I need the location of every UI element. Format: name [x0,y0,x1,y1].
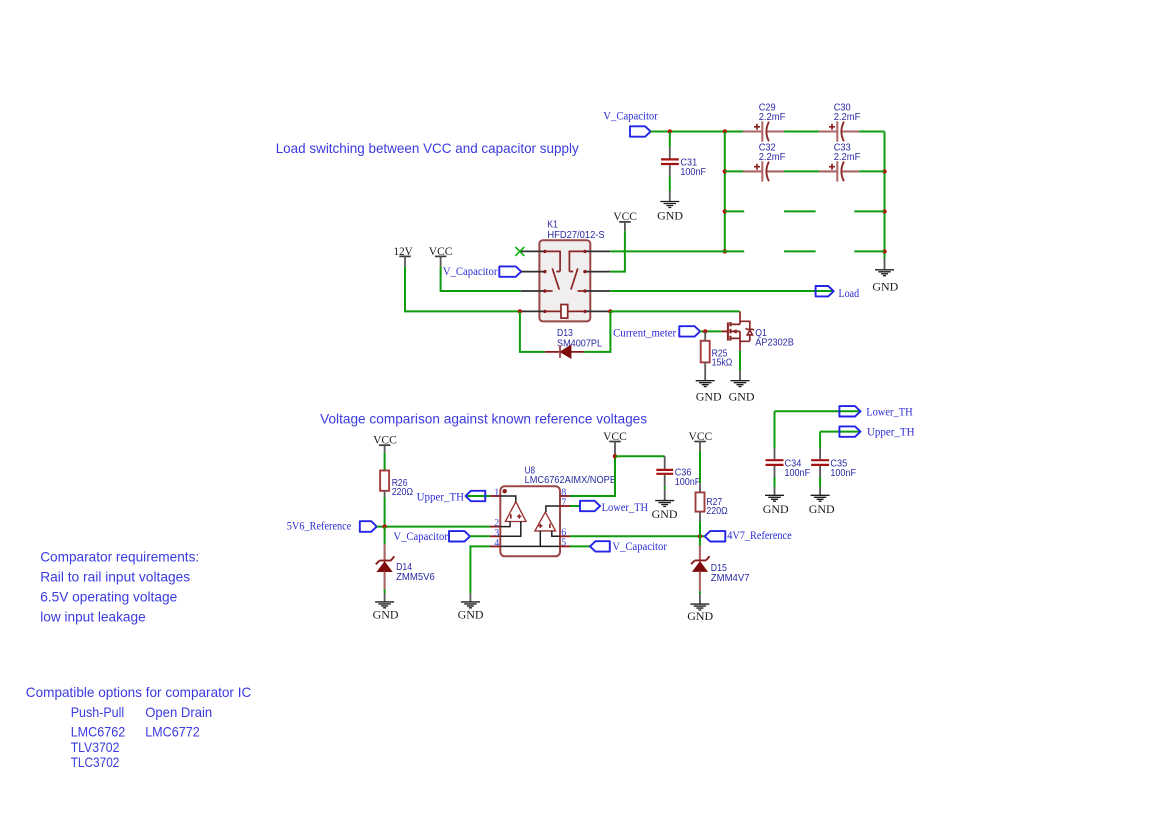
svg-text:GND: GND [729,390,755,404]
svg-text:GND: GND [657,209,683,223]
svg-text:GND: GND [458,607,484,621]
svg-text:7: 7 [561,497,566,508]
svg-text:Current_meter: Current_meter [613,325,676,339]
global label V_Capacitor (U8 pin3) [393,529,470,543]
svg-text:TLC3702: TLC3702 [71,754,120,770]
wire row1 C30 to right column [859,131,884,133]
power symbol VCC (above relay) [613,209,637,231]
wire R26 to junction [384,498,386,527]
svg-text:2.2mF: 2.2mF [834,111,861,123]
relay pin 2 left [521,271,545,273]
U8 pin 3 [490,535,500,537]
relay pin 4 right (coil) [585,310,610,312]
junction row4 left [723,249,727,253]
power symbol VCC (left of relay) [429,244,453,267]
svg-text:VCC: VCC [373,432,397,446]
ground GND below C35 [809,495,835,516]
relay contact arm A [545,268,559,291]
relay pin 3 left [521,290,545,292]
junction R27/D15 [698,534,702,538]
capacitor C30 [819,102,861,142]
junction row2 left [723,169,727,173]
relay contact set B (right) [569,251,585,271]
global label 5V6_Reference [287,518,377,532]
svg-text:2.2mF: 2.2mF [834,151,861,163]
svg-text:GND: GND [696,390,722,404]
transistor Q1 [722,311,794,350]
global label Load [816,286,860,300]
global label Upper_TH (U8 pin1) [417,489,490,503]
wire Q1 source down [739,351,741,371]
wire U8 pin6 to 4V7 junction [570,535,705,537]
capacitor C35 [811,432,856,496]
no-connect X on relay pin1 left [515,247,524,256]
power symbol VCC (above R26) [373,432,397,453]
wire C35 to Upper_TH label [820,431,860,433]
relay pin 1 right [585,250,610,252]
junction R26/D14 [382,524,386,528]
junction row1 left column [723,129,727,133]
svg-text:GND: GND [373,607,399,621]
relay pin 4 left (coil) [520,310,545,312]
svg-text:TLV3702: TLV3702 [71,739,120,755]
relay K1 body [539,219,604,322]
capacitor C29 [743,102,785,142]
note: comparator requirements block [40,549,199,625]
wire V_Capacitor to U8 pin3 [470,535,490,537]
svg-text:Comparator requirements:: Comparator requirements: [40,549,199,565]
ground GND below C31 [657,191,683,223]
wire relay pin1 right to cap bank row4 [610,250,725,252]
svg-text:SM4007PL: SM4007PL [557,337,602,349]
svg-text:4: 4 [494,538,499,549]
U8 pin 2 [490,526,500,528]
wire Current_meter to Q1 gate [700,330,722,332]
svg-text:Load switching between VCC and: Load switching between VCC and capacitor… [276,140,579,156]
wire junction down to D14 [384,527,386,545]
svg-text:GND: GND [809,502,835,516]
U8 pin 1 [490,495,500,497]
svg-text:Push-Pull: Push-Pull [71,704,125,720]
svg-text:Lower_TH: Lower_TH [866,404,913,418]
op-amp U8 body [500,465,616,557]
wire VCC to R26 [384,453,386,471]
diode D13 [545,327,602,358]
svg-text:5V6_Reference: 5V6_Reference [287,518,352,532]
global label 4V7_Reference [705,528,792,542]
relay contact set A (left) [545,251,560,271]
junction at C31 top [668,129,672,133]
wire R27 to junction [699,522,701,537]
junction D13 left [518,309,522,313]
global label Current_meter [613,325,700,339]
global label Lower_TH (U8 pin7) [570,500,648,514]
wire junction to C36 [615,455,665,457]
junction D13 right [608,309,612,313]
power symbol VCC (above R27) [689,429,713,452]
junction row4 right [882,249,886,253]
wire C34 to Lower_TH label [775,410,861,412]
svg-text:Upper_TH: Upper_TH [417,489,465,503]
wire row1 between C29 and C30 [784,131,819,133]
svg-text:Rail to rail input voltages: Rail to rail input voltages [40,569,190,585]
wire VCC to relay pin3 [441,267,521,291]
junction row2 right [882,169,886,173]
U8 pin 7 [560,505,570,507]
svg-text:15kΩ: 15kΩ [712,357,733,369]
wire stubs row3 [725,210,885,212]
capacitor C34 [766,411,811,495]
svg-text:Voltage comparison against kno: Voltage comparison against known referen… [320,410,647,426]
relay coil [545,305,585,319]
capacitor C31 [661,132,706,191]
global label V_Capacitor (U8 pin5) [570,539,667,553]
svg-text:GND: GND [687,609,713,623]
capacitor C33 [819,142,861,182]
svg-text:V_Capacitor: V_Capacitor [443,264,498,278]
U8 pin 6 [560,535,570,537]
wire D13 loop left [520,311,545,352]
svg-text:Upper_TH: Upper_TH [867,425,915,439]
svg-text:AP2302B: AP2302B [755,336,794,348]
relay pin 1 left [521,250,545,252]
ground GND below C34 [763,495,789,516]
relay pin 2 right [585,271,610,273]
svg-text:V_Capacitor: V_Capacitor [612,539,667,553]
U8 pin 5 [560,545,570,547]
svg-text:LMC6772: LMC6772 [145,724,200,740]
svg-text:Open Drain: Open Drain [145,704,212,720]
global label V_Capacitor (relay pin2) [443,264,521,278]
ground GND below U8 pin4 [458,593,484,621]
svg-text:LMC6762AIMX/NOPB: LMC6762AIMX/NOPB [525,474,616,486]
svg-text:220Ω: 220Ω [392,486,413,498]
relay contact arm B [571,268,585,291]
svg-text:ZMM5V6: ZMM5V6 [396,571,435,583]
wire row2 C33 to right column [859,170,884,172]
wire relay pin3 right to Load [610,290,833,292]
wire D13 loop right [584,311,610,352]
svg-text:low input leakage: low input leakage [40,608,146,624]
U8 internal wiring [500,496,559,546]
ground GND below D14 [373,593,399,621]
wire relay coil right to Q1 drain [610,310,739,312]
relay pin 3 right [585,290,610,292]
svg-text:220Ω: 220Ω [706,505,727,517]
power symbol 12V [394,244,414,267]
junction row3 right [882,209,886,213]
capacitor C36 [656,456,700,500]
global label Upper_TH (top right) [839,425,914,439]
svg-text:2.2mF: 2.2mF [759,111,786,123]
wire row2 between C32 and C33 [784,170,819,172]
junction VCC/C36 [613,454,617,458]
svg-text:5: 5 [561,538,566,549]
U8 pin 4 [490,545,500,547]
op-amp U8 comparator B triangle [535,512,556,531]
power symbol VCC (above U8 pin8) [603,429,627,456]
svg-text:100nF: 100nF [830,467,856,479]
zener diode D15 [691,546,750,595]
ground GND right column [872,259,898,294]
svg-text:6.5V operating voltage: 6.5V operating voltage [40,589,177,605]
svg-text:GND: GND [763,502,789,516]
ground GND below Q1 [729,371,755,404]
resistor R27 [696,483,728,521]
wire stubs row4 [725,250,885,252]
svg-text:Compatible options for compara: Compatible options for comparator IC [26,684,252,700]
svg-text:100nF: 100nF [785,467,811,479]
svg-text:GND: GND [872,279,898,293]
wire VCC down to relay pin2 right [610,231,625,271]
ground GND below D15 [687,594,713,623]
ground GND below C36 [652,501,678,521]
wire 5V6_Reference junction to U8 pin2 [377,526,490,528]
svg-text:V_Capacitor: V_Capacitor [393,529,448,543]
svg-text:Lower_TH: Lower_TH [602,500,649,514]
svg-text:ZMM4V7: ZMM4V7 [711,572,750,584]
ground GND below R25 [696,381,722,404]
zener diode D14 [376,544,435,593]
wire 12V to relay coil [405,267,520,312]
global label V_Capacitor (top) [603,108,658,136]
resistor R26 [380,471,413,499]
op-amp U8 comparator A triangle [505,502,526,522]
svg-text:V_Capacitor: V_Capacitor [603,108,658,122]
svg-text:VCC: VCC [613,209,637,223]
wire left bus column [724,132,726,252]
wire VCC to R27 [699,452,701,484]
wire right bus column [884,132,886,259]
note: compatible options block [26,684,252,770]
junction row3 left [723,209,727,213]
svg-text:Load: Load [839,286,860,300]
svg-text:1: 1 [494,488,499,499]
wire U8 pin4 to ground [470,546,490,593]
wire U8 pin8 to VCC [570,456,615,496]
wire V_Capacitor to cap bank row1 [651,131,743,133]
resistor R25 [701,331,733,380]
U8 pin 8 [560,495,570,497]
svg-text:GND: GND [652,507,678,521]
capacitor C32 [743,142,785,182]
global label Lower_TH (top right) [839,404,913,418]
junction R25 top [703,329,707,333]
svg-text:100nF: 100nF [680,166,706,178]
wire junction down to D15 [699,536,701,545]
svg-text:LMC6762: LMC6762 [71,724,126,740]
svg-text:4V7_Reference: 4V7_Reference [727,528,792,542]
wire row2 left stub [725,170,743,172]
svg-text:100nF: 100nF [675,476,701,488]
svg-text:2.2mF: 2.2mF [759,151,786,163]
